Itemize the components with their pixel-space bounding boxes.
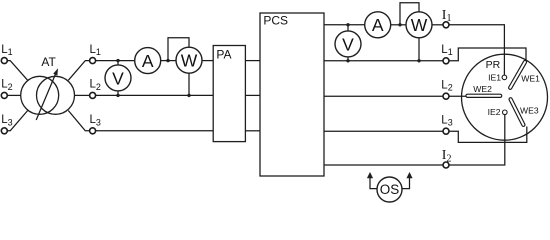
svg-text:L3: L3 [90,114,101,127]
svg-text:I2: I2 [442,148,452,164]
svg-text:W: W [411,15,428,35]
svg-text:V: V [342,34,354,54]
svg-text:L2: L2 [1,79,12,92]
svg-text:WE1: WE1 [521,74,540,84]
svg-text:A: A [142,51,154,71]
svg-text:WE2: WE2 [473,84,492,94]
svg-text:IE1: IE1 [488,73,501,83]
svg-text:PR: PR [486,59,501,71]
svg-text:I1: I1 [442,8,452,24]
svg-text:AT: AT [41,55,56,69]
svg-text:L2: L2 [441,79,452,92]
svg-text:W: W [181,51,198,71]
svg-text:IE2: IE2 [488,107,501,117]
svg-text:PCS: PCS [263,14,288,28]
svg-text:L1: L1 [441,44,452,57]
svg-text:WE3: WE3 [520,105,539,115]
svg-text:L1: L1 [1,44,12,57]
svg-text:L3: L3 [441,114,452,127]
svg-text:L1: L1 [90,44,101,57]
svg-text:L2: L2 [90,79,101,92]
svg-text:V: V [112,68,124,88]
svg-text:OS: OS [380,182,400,197]
svg-text:L3: L3 [1,114,12,127]
svg-text:A: A [372,15,384,35]
svg-text:PA: PA [216,48,231,62]
